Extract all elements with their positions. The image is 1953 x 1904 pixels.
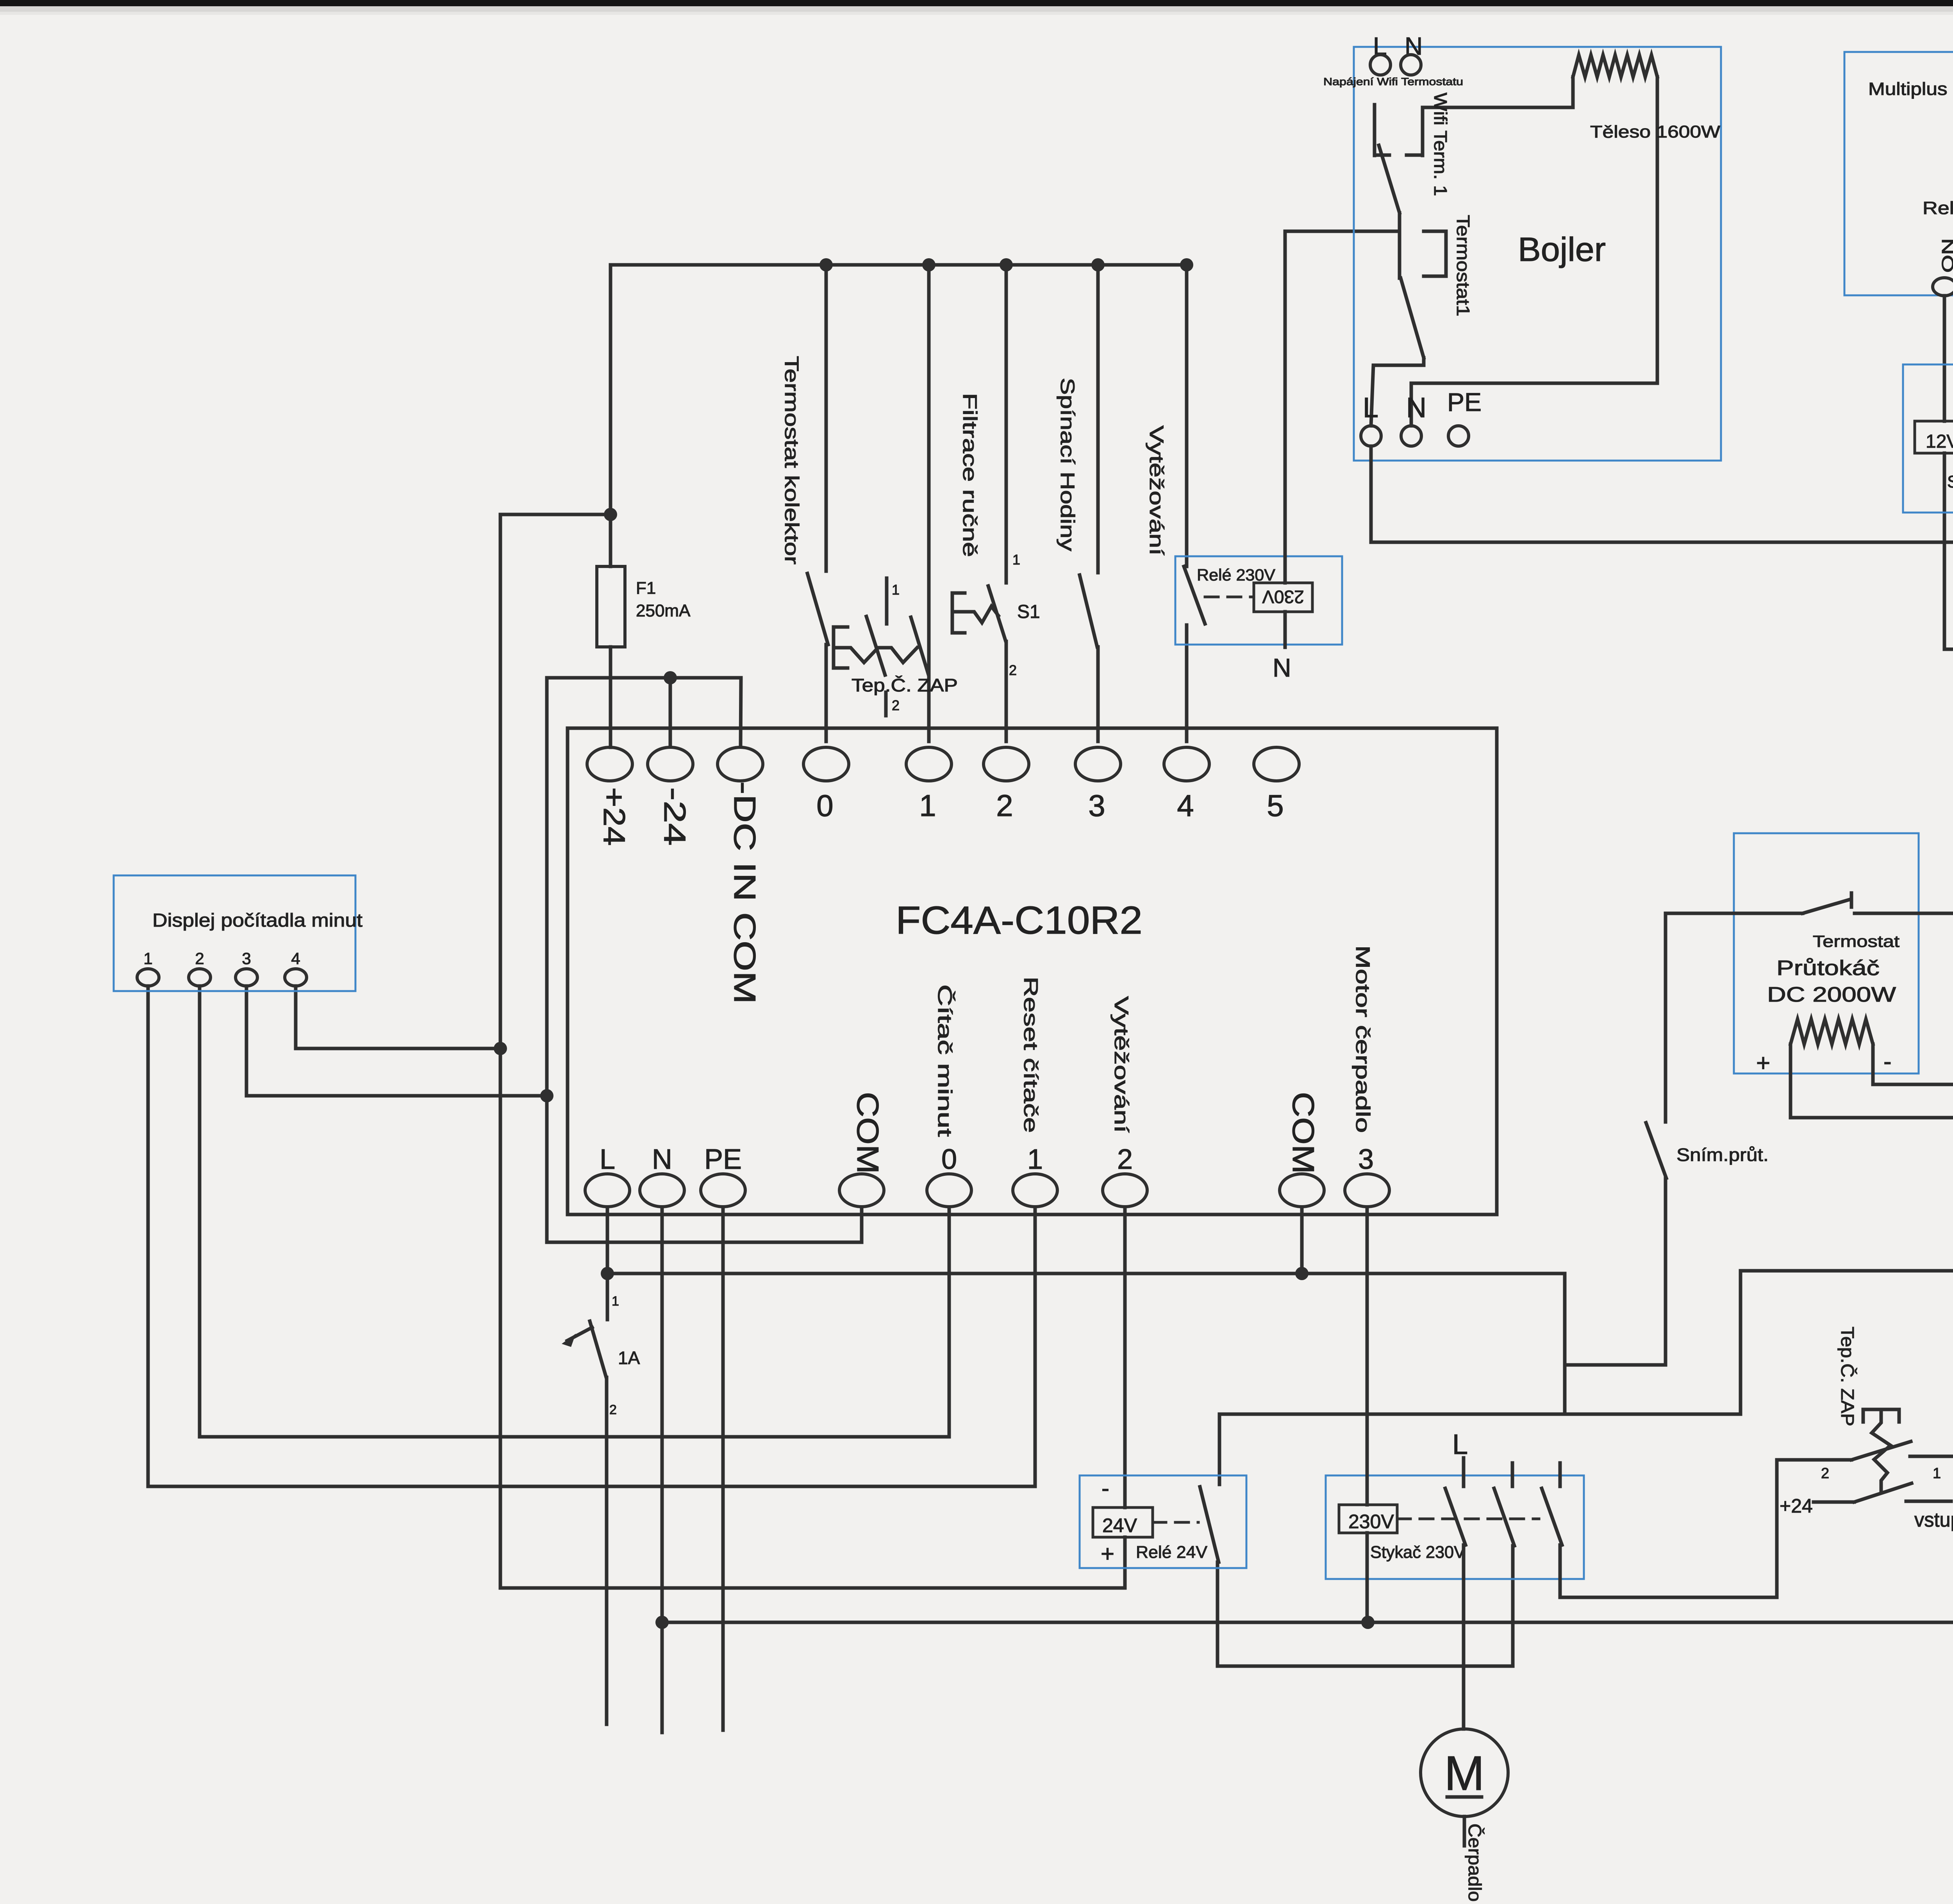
svg-text:2: 2: [609, 1402, 617, 1417]
svg-text:L: L: [600, 1144, 615, 1175]
svg-text:Relé 24V: Relé 24V: [1136, 1543, 1208, 1562]
svg-text:Relé AUX 1: Relé AUX 1: [1923, 198, 1953, 218]
svg-text:2: 2: [1009, 662, 1017, 678]
svg-text:S1: S1: [1017, 602, 1040, 622]
svg-text:2: 2: [1821, 1465, 1829, 1482]
svg-text:0: 0: [816, 788, 833, 823]
svg-text:-DC IN COM: -DC IN COM: [728, 781, 762, 1004]
svg-text:2: 2: [1117, 1144, 1133, 1175]
svg-text:COM: COM: [851, 1092, 885, 1174]
svg-text:L: L: [1452, 1429, 1468, 1460]
svg-text:+24: +24: [1780, 1495, 1813, 1517]
svg-text:2: 2: [892, 697, 900, 713]
svg-text:Vytěžování: Vytěžování: [1146, 425, 1168, 555]
svg-text:Tep.Č. ZAP: Tep.Č. ZAP: [852, 675, 958, 695]
svg-text:Displej počítadla minut: Displej počítadla minut: [152, 910, 362, 931]
svg-text:5: 5: [1267, 788, 1284, 823]
svg-text:Termostat kolektor: Termostat kolektor: [781, 356, 803, 564]
svg-text:12V: 12V: [1926, 431, 1953, 452]
svg-text:Těleso 1600W: Těleso 1600W: [1590, 122, 1721, 141]
svg-text:Vytěžování: Vytěžování: [1110, 996, 1132, 1133]
svg-text:3: 3: [1088, 788, 1105, 823]
svg-text:-: -: [1883, 1048, 1892, 1075]
svg-text:Multiplus 32 Master: Multiplus 32 Master: [1868, 79, 1953, 99]
svg-text:Relé 230V: Relé 230V: [1197, 566, 1275, 584]
svg-text:+: +: [1756, 1050, 1770, 1077]
svg-text:Wifi Term. 1: Wifi Term. 1: [1430, 93, 1451, 196]
svg-text:4: 4: [1177, 788, 1194, 823]
svg-text:Reset čítače: Reset čítače: [1020, 977, 1042, 1133]
svg-text:PE: PE: [1447, 388, 1482, 416]
svg-text:Motor čerpadlo: Motor čerpadlo: [1352, 945, 1374, 1133]
svg-text:1: 1: [1933, 1465, 1941, 1482]
svg-text:+: +: [1101, 1541, 1114, 1567]
svg-text:N: N: [1273, 653, 1291, 682]
svg-text:Čerpadlo: Čerpadlo: [1465, 1824, 1485, 1902]
svg-text:Bojler: Bojler: [1518, 231, 1606, 268]
svg-text:Termostat: Termostat: [1813, 932, 1899, 950]
svg-text:M: M: [1444, 1747, 1484, 1800]
svg-text:COM: COM: [1286, 1092, 1321, 1174]
svg-text:DC 2000W: DC 2000W: [1767, 983, 1896, 1006]
svg-text:FC4A-C10R2: FC4A-C10R2: [896, 898, 1143, 942]
svg-text:24V: 24V: [1102, 1515, 1137, 1536]
svg-text:PE: PE: [704, 1144, 742, 1175]
svg-text:-: -: [1101, 1475, 1109, 1501]
svg-text:Průtokáč: Průtokáč: [1776, 956, 1880, 980]
svg-text:250mA: 250mA: [636, 601, 691, 620]
svg-text:4: 4: [291, 949, 300, 968]
svg-text:0: 0: [941, 1144, 957, 1175]
svg-text:Sním.průt.: Sním.průt.: [1676, 1145, 1769, 1165]
svg-text:-24: -24: [658, 787, 692, 846]
svg-text:Termostat1: Termostat1: [1453, 215, 1473, 316]
svg-text:1A: 1A: [618, 1348, 640, 1368]
svg-text:2: 2: [996, 788, 1013, 823]
svg-text:L: L: [1363, 392, 1378, 423]
svg-text:230V: 230V: [1262, 587, 1304, 607]
svg-text:Tep.Č. ZAP: Tep.Č. ZAP: [1837, 1327, 1858, 1426]
svg-text:3: 3: [242, 949, 251, 968]
svg-text:vstup I1 PLC: vstup I1 PLC: [1914, 1509, 1953, 1531]
svg-text:3: 3: [1358, 1144, 1374, 1175]
svg-text:1: 1: [919, 788, 936, 823]
svg-text:1: 1: [143, 949, 152, 968]
svg-text:Stykač 230V: Stykač 230V: [1370, 1543, 1466, 1562]
svg-text:N: N: [1406, 392, 1426, 423]
svg-text:1: 1: [1027, 1144, 1043, 1175]
svg-text:1: 1: [1012, 552, 1020, 568]
svg-text:F1: F1: [636, 579, 656, 598]
svg-text:Stykač 12V: Stykač 12V: [1947, 472, 1953, 491]
svg-text:2: 2: [195, 949, 204, 968]
svg-text:1: 1: [612, 1294, 619, 1309]
svg-text:Filtrace ručně: Filtrace ručně: [959, 393, 981, 557]
svg-text:Napájení Wifi Termostatu: Napájení Wifi Termostatu: [1323, 76, 1463, 88]
svg-text:Čítač minut: Čítač minut: [934, 984, 956, 1137]
svg-text:NO: NO: [1939, 238, 1953, 273]
svg-text:230V: 230V: [1348, 1511, 1394, 1532]
svg-text:+24: +24: [597, 787, 632, 846]
svg-text:N: N: [652, 1144, 672, 1175]
svg-text:1: 1: [892, 582, 900, 598]
svg-text:Spínací Hodiny: Spínací Hodiny: [1057, 378, 1078, 551]
